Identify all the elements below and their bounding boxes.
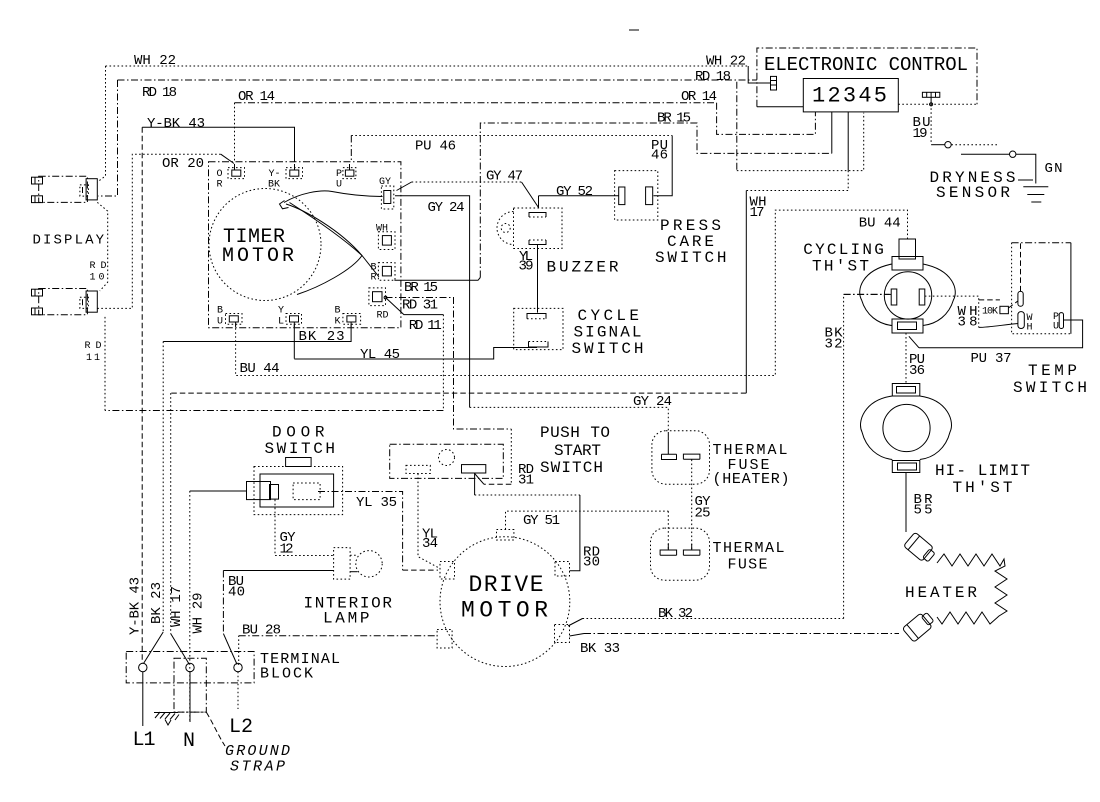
- svg-text:FUSE: FUSE: [728, 557, 768, 574]
- svg-text:WH 29: WH 29: [191, 593, 207, 634]
- svg-text:PU 46: PU 46: [415, 139, 456, 155]
- svg-text:L2: L2: [229, 716, 253, 739]
- svg-text:(HEATER): (HEATER): [713, 471, 790, 488]
- svg-text:BU 28: BU 28: [242, 623, 281, 639]
- svg-text:RD 18: RD 18: [695, 69, 731, 85]
- svg-text:CYCLING: CYCLING: [803, 241, 884, 259]
- svg-text:GY 52: GY 52: [556, 184, 593, 200]
- svg-text:BR 15: BR 15: [657, 111, 691, 127]
- svg-text:RD: RD: [377, 311, 389, 322]
- svg-text:WH 22: WH 22: [706, 54, 746, 70]
- svg-text:34: 34: [422, 536, 438, 552]
- svg-text:BLOCK: BLOCK: [260, 666, 313, 683]
- svg-text:WH: WH: [376, 224, 388, 235]
- svg-text:BK 23: BK 23: [149, 582, 165, 624]
- svg-text:U: U: [1053, 322, 1059, 333]
- svg-text:BK 23: BK 23: [299, 329, 345, 345]
- svg-text:STRAP: STRAP: [230, 759, 285, 776]
- svg-text:WH 22: WH 22: [134, 53, 176, 69]
- svg-text:YL 35: YL 35: [356, 495, 397, 511]
- svg-text:DRIVE: DRIVE: [469, 572, 544, 598]
- svg-text:MOTOR: MOTOR: [461, 598, 548, 624]
- svg-text:CYCLE: CYCLE: [578, 307, 640, 325]
- svg-text:H: H: [1027, 323, 1033, 334]
- svg-text:THERMAL: THERMAL: [713, 540, 785, 557]
- svg-text:GY 24: GY 24: [428, 200, 465, 216]
- svg-text:RD 31: RD 31: [402, 298, 438, 314]
- svg-text:25: 25: [695, 506, 711, 522]
- svg-text:PUSH TO: PUSH TO: [540, 424, 610, 442]
- svg-text:RD 11: RD 11: [409, 318, 442, 334]
- svg-text:BU 44: BU 44: [859, 216, 901, 232]
- svg-text:GY 47: GY 47: [486, 169, 523, 185]
- svg-text:Y-: Y-: [269, 169, 281, 180]
- svg-text:MOTOR: MOTOR: [222, 245, 294, 268]
- svg-text:U: U: [336, 180, 342, 191]
- svg-text:ELECTRONIC CONTROL: ELECTRONIC CONTROL: [764, 54, 968, 76]
- svg-text:OR 14: OR 14: [238, 89, 275, 105]
- svg-text:K: K: [335, 317, 341, 328]
- svg-text:GN: GN: [1045, 161, 1063, 177]
- svg-text:B: B: [217, 306, 223, 317]
- svg-text:30: 30: [583, 555, 600, 571]
- svg-text:19: 19: [913, 126, 928, 142]
- svg-text:L1: L1: [133, 729, 156, 752]
- svg-text:11: 11: [86, 353, 100, 364]
- svg-text:R: R: [371, 273, 377, 284]
- svg-text:31: 31: [518, 473, 534, 489]
- svg-text:HI- LIMIT: HI- LIMIT: [935, 462, 1030, 480]
- svg-text:BR 15: BR 15: [404, 280, 438, 296]
- svg-text:U: U: [217, 317, 223, 328]
- svg-text:O: O: [217, 169, 223, 180]
- svg-text:12345: 12345: [812, 84, 887, 109]
- svg-text:OR 14: OR 14: [681, 89, 717, 105]
- svg-text:BK: BK: [268, 180, 280, 191]
- svg-text:SWITCH: SWITCH: [540, 459, 603, 477]
- svg-text:12: 12: [280, 542, 294, 558]
- svg-text:PU 37: PU 37: [971, 351, 1012, 367]
- svg-text:N: N: [183, 730, 195, 753]
- svg-text:GY 51: GY 51: [523, 513, 560, 529]
- svg-text:BU 44: BU 44: [240, 361, 280, 377]
- svg-text:L: L: [278, 317, 284, 328]
- svg-text:GY: GY: [379, 177, 391, 188]
- svg-text:BK 32: BK 32: [658, 606, 693, 622]
- svg-text:WH 17: WH 17: [169, 586, 185, 627]
- svg-text:B: B: [335, 306, 341, 317]
- svg-text:START: START: [554, 442, 601, 460]
- svg-text:BK 33: BK 33: [580, 641, 620, 657]
- svg-text:P: P: [336, 169, 342, 180]
- svg-text:17: 17: [750, 205, 765, 221]
- svg-text:RD 18: RD 18: [142, 85, 177, 101]
- svg-text:YL 45: YL 45: [360, 347, 400, 363]
- svg-text:39: 39: [519, 259, 534, 275]
- svg-text:Y-BK 43: Y-BK 43: [128, 577, 144, 635]
- svg-text:Y: Y: [278, 306, 284, 317]
- svg-text:R: R: [217, 180, 223, 191]
- svg-text:46: 46: [651, 148, 668, 164]
- svg-text:TH'ST: TH'ST: [812, 258, 869, 276]
- svg-text:36: 36: [909, 363, 925, 379]
- svg-text:10K: 10K: [982, 307, 998, 318]
- svg-text:32: 32: [825, 337, 843, 353]
- svg-text:Y-BK 43: Y-BK 43: [147, 116, 205, 132]
- svg-text:OR 20: OR 20: [162, 156, 204, 172]
- svg-text:TH'ST: TH'ST: [953, 479, 1013, 497]
- svg-text:40: 40: [228, 585, 245, 601]
